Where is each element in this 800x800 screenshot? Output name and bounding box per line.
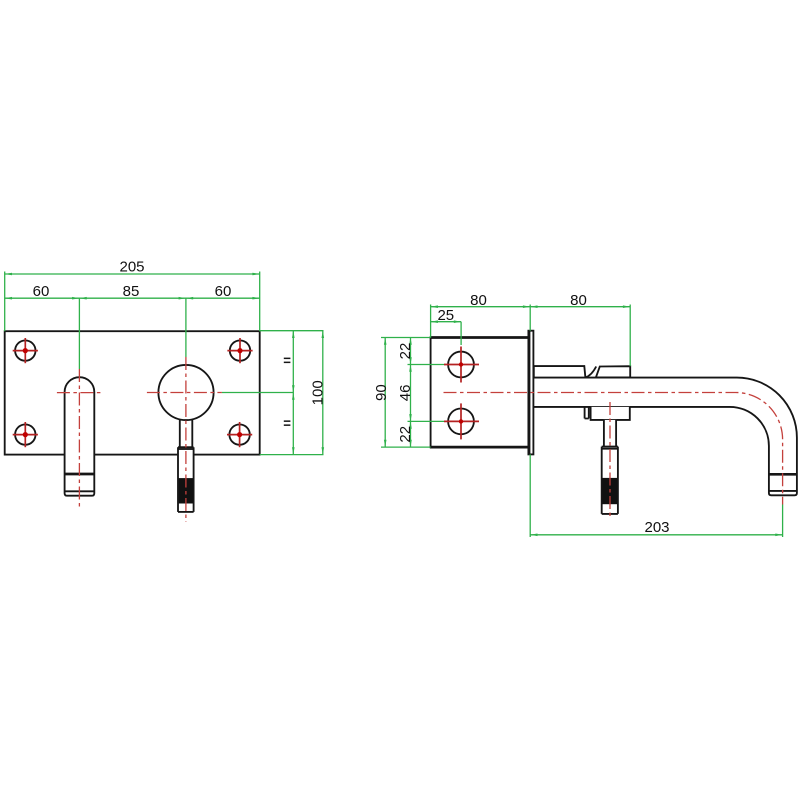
svg-text:205: 205 [119,259,144,276]
svg-text:46: 46 [397,385,414,402]
svg-text:60: 60 [33,283,50,300]
svg-text:90: 90 [373,384,390,401]
svg-text:100: 100 [310,380,327,405]
svg-text:25: 25 [437,307,454,324]
svg-text:80: 80 [570,292,587,309]
svg-text:22: 22 [397,426,414,443]
svg-text:85: 85 [123,283,140,300]
svg-text:60: 60 [215,283,232,300]
svg-text:22: 22 [397,343,414,360]
svg-text:203: 203 [644,519,669,536]
svg-text:80: 80 [470,292,487,309]
